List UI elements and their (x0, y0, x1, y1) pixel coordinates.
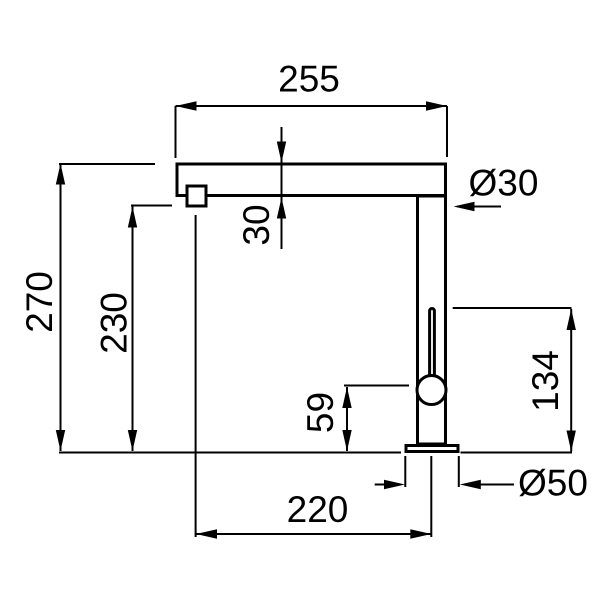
svg-text:220: 220 (287, 489, 349, 530)
svg-text:Ø50: Ø50 (518, 463, 588, 504)
svg-text:230: 230 (94, 292, 135, 354)
svg-text:30: 30 (236, 204, 277, 245)
svg-text:134: 134 (525, 350, 566, 412)
svg-text:270: 270 (19, 271, 60, 333)
svg-text:255: 255 (278, 59, 340, 100)
svg-text:59: 59 (300, 392, 341, 433)
svg-text:Ø30: Ø30 (469, 163, 539, 204)
